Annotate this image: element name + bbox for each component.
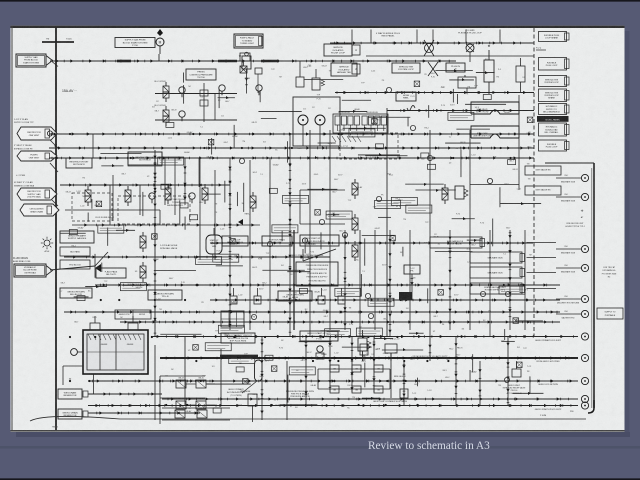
- right hook: [588, 400, 594, 413]
- hose loop 2: [471, 126, 519, 138]
- HPU enclosure: [293, 97, 340, 146]
- R22 link: [527, 257, 557, 259]
- wire wash bus C: [49, 156, 534, 159]
- callout flag restrictor b: [17, 151, 57, 161]
- valve ctrl V2: [163, 106, 169, 126]
- terminal circle bottom bus 2: [581, 354, 588, 361]
- left junction arrows: [95, 264, 101, 272]
- label box gekko supply box: [60, 231, 94, 243]
- bc rail: [160, 375, 205, 377]
- wire bottom vertical x480: [478, 361, 481, 405]
- reservoir tank T1: [83, 330, 148, 374]
- label box hose reel box: [396, 92, 416, 101]
- paper shadow bottom: [16, 432, 630, 437]
- valve col V0: [352, 179, 358, 199]
- valve col V2: [352, 241, 358, 261]
- wire bottom bus 2: [160, 356, 578, 359]
- drawing border left: [11, 26, 13, 431]
- wire grid vertical x430: [429, 130, 431, 336]
- accumulator capsule: [255, 360, 263, 381]
- valve on bus2: [360, 344, 368, 355]
- manifold strip: [333, 114, 388, 133]
- spring valve SV1: [358, 338, 367, 351]
- wire grid vertical x155: [153, 158, 156, 210]
- callout R2: [539, 58, 570, 71]
- wire grid vertical x230: [228, 158, 231, 330]
- small comp x255: [255, 68, 262, 74]
- caption: [368, 440, 490, 452]
- wire grid vertical x525: [524, 230, 526, 330]
- callout R1: [539, 32, 570, 42]
- wire grid vertical x270: [269, 158, 271, 330]
- gauge gauge G2: [256, 85, 262, 95]
- rm spring valve: [455, 186, 464, 199]
- sun symbol: [44, 240, 50, 246]
- R23 link: [527, 272, 557, 274]
- spring valve atop HPU: [312, 78, 320, 90]
- tj b comp: [317, 346, 323, 352]
- terminal circle bottom bus 5: [581, 402, 588, 409]
- rounded tank: [206, 235, 222, 254]
- valve left col V7: [140, 262, 146, 282]
- wire grid vertical x165: [164, 158, 166, 205]
- tank drop wire: [93, 374, 95, 394]
- mb valve 0: [330, 365, 339, 372]
- valve rm V1: [442, 184, 448, 204]
- x circle valve: [428, 62, 438, 76]
- filter F1: [516, 66, 525, 82]
- gauge mid gauge a: [149, 193, 155, 203]
- label box nde box: [262, 236, 292, 246]
- label box gas drain reservoir 1: [58, 389, 82, 399]
- wire grid vertical x310: [309, 130, 311, 336]
- center small valves: [230, 288, 237, 304]
- bold arrow segment on H1: [117, 60, 131, 63]
- tank bottom lines: [63, 365, 83, 367]
- mb valve 5: [374, 386, 383, 393]
- label box shroud tee box: [392, 63, 420, 73]
- gauge gauge G4: [179, 111, 185, 121]
- wire bottom vertical x185: [184, 337, 186, 405]
- label box tops box: [96, 268, 126, 278]
- dashed outline 2: [118, 196, 190, 224]
- dashed outline left: [72, 193, 112, 221]
- text po1099 label: [458, 30, 482, 35]
- tank stubs: [90, 323, 100, 330]
- wire heavy vertical x294: [293, 230, 295, 330]
- wire long vertical x155: [153, 150, 156, 336]
- label box return filter box: [148, 290, 182, 300]
- tj cluster right: [512, 369, 521, 377]
- gun circle RC4: [556, 267, 581, 269]
- label box supply gas note B1: [115, 38, 155, 48]
- wire long bus F: [95, 283, 560, 286]
- gun circle RC5: [556, 298, 581, 300]
- text pressure text bottom: [286, 391, 315, 398]
- wire bottom vertical x262: [260, 337, 263, 420]
- wire wash bus B: [49, 146, 534, 149]
- hose loop 1: [471, 102, 519, 114]
- bc valve 0: [176, 380, 186, 388]
- R24 link: [527, 288, 557, 290]
- valve ctrl V1: [163, 82, 169, 102]
- riser arrows: [238, 219, 243, 225]
- pressure text box: [296, 262, 338, 286]
- wire grid vertical x345: [343, 230, 346, 330]
- rail y110: [387, 110, 534, 112]
- flag1 circle: [47, 131, 52, 136]
- wire grid vertical x250: [249, 160, 251, 330]
- sq A2: [352, 64, 360, 74]
- label box plug in box: [446, 63, 465, 72]
- bc links: [186, 383, 196, 385]
- callout flag circulating gear: [20, 204, 59, 216]
- callout flag hydraulic block: [14, 264, 46, 277]
- wire grid vertical x185: [183, 158, 186, 205]
- wire vertical x113: [112, 175, 114, 221]
- drawing border top: [11, 26, 625, 28]
- label box startup hyd supply box: [300, 331, 338, 341]
- bc2 valve 1: [197, 410, 207, 418]
- wire grid vertical x450: [448, 230, 451, 330]
- flag slashes: [50, 140, 58, 148]
- wire grid vertical x175: [174, 158, 176, 215]
- left small blocks: [60, 247, 90, 256]
- label box gas drain reservoir 2: [58, 409, 82, 419]
- wire grid vertical x510: [508, 230, 511, 330]
- label box sample box: [60, 288, 92, 298]
- valve mid V1: [125, 186, 131, 206]
- callout flag restrictor d: [17, 188, 57, 200]
- wire grid vertical x330: [329, 130, 331, 330]
- wire mid bus G: [210, 298, 560, 301]
- mid link lines: [65, 209, 160, 211]
- pump circle P3: [315, 115, 325, 125]
- bc valve 1: [176, 401, 186, 409]
- tank left gauge: [71, 349, 78, 356]
- label box restrictor set box 2: [66, 158, 92, 168]
- mb valve 4: [352, 386, 361, 393]
- mb rail: [318, 368, 390, 370]
- R21 link: [527, 242, 557, 244]
- callout R4: [539, 89, 570, 102]
- wire bottom bus 1: [151, 335, 578, 338]
- wire bottom vertical x404: [402, 361, 405, 405]
- bus risers left: [92, 134, 94, 158]
- wire mid bus D: [210, 241, 533, 244]
- wire bottom vertical x221: [220, 349, 222, 405]
- wm circle: [466, 44, 474, 52]
- texture mini boxes: [98, 112, 525, 375]
- valve mid V3: [202, 184, 208, 204]
- bottom sweep line: [30, 416, 586, 421]
- reservoir sq 1: [83, 391, 88, 397]
- dashed outline 1: [128, 152, 162, 166]
- terminal circle bottom bus 3: [581, 377, 588, 384]
- wire grid vertical x200: [199, 158, 201, 260]
- valve on bus4: [400, 389, 408, 398]
- texture symbols: [69, 81, 532, 413]
- valve mid V0: [85, 186, 91, 206]
- callout R22: [470, 252, 525, 263]
- callout R24: [470, 283, 525, 294]
- bold bar under box: [220, 355, 258, 358]
- left drop wire: [55, 378, 57, 425]
- wire grid vertical x215: [214, 170, 216, 260]
- hatch under manifold: [332, 136, 336, 142]
- pump unit P1: [484, 60, 494, 82]
- reservoir sq 2: [83, 411, 88, 417]
- wire grid vertical x375: [374, 230, 376, 330]
- label box hub box: [404, 265, 420, 274]
- bold segment 2 on H1: [218, 60, 237, 63]
- wire bottom bus 5: [88, 404, 578, 407]
- wire bottom vertical x306: [304, 337, 307, 405]
- bc valve 3: [196, 401, 206, 409]
- callout R6: [539, 123, 570, 136]
- hub stem: [411, 274, 413, 300]
- gauge mid gauge b: [189, 193, 195, 203]
- gun circle RC3: [556, 248, 581, 250]
- inverted panel bar: [537, 116, 569, 122]
- label box woer box: [222, 236, 248, 246]
- tick cross on left vertical: [42, 41, 74, 43]
- wire mid bus I: [120, 320, 560, 323]
- wire mid bus H: [64, 310, 560, 313]
- caption band: [0, 446, 640, 449]
- zone dash divider: [533, 28, 535, 336]
- wire main supply bus H1: [50, 59, 456, 62]
- bc2 valve 0: [175, 410, 185, 418]
- wire bottom vertical x456: [454, 337, 457, 405]
- rail y92: [335, 92, 534, 94]
- wire main left vertical: [55, 28, 57, 431]
- cluster rails: [155, 93, 237, 95]
- diagonal wire: [303, 249, 336, 261]
- vertical x387: [386, 108, 388, 336]
- label box water mist: [278, 291, 312, 301]
- loop gauge: [487, 178, 492, 183]
- terminal circle bottom bus 4: [581, 395, 588, 402]
- label box restrictor set box: [128, 152, 162, 165]
- riser from H1: [158, 54, 160, 61]
- comp x296: [296, 77, 304, 87]
- gun circle RC1: [556, 177, 581, 179]
- top border drops: [351, 30, 353, 44]
- text 4way label: [376, 32, 400, 38]
- drop to bus: [390, 353, 392, 361]
- slide bottom edge: [0, 478, 640, 480]
- wire bottom vertical x155: [154, 345, 156, 420]
- reservoir link 1: [88, 393, 162, 395]
- label box service isolated 1: [324, 44, 352, 56]
- wire wash bus A: [49, 132, 534, 135]
- label box gas primary circuit: [221, 333, 255, 343]
- motor M1: [156, 38, 164, 46]
- valve left col V6: [140, 232, 146, 252]
- regulator box: [300, 235, 339, 246]
- callout R5: [539, 104, 570, 115]
- label box pump fault board light B2: [234, 34, 263, 48]
- comp right 458: [458, 77, 476, 88]
- loop riser: [518, 95, 520, 190]
- reservoir link 2: [88, 412, 200, 414]
- mb valve 2: [374, 365, 383, 372]
- upn valve: [248, 394, 257, 406]
- callout R23: [470, 267, 525, 278]
- wire bottom vertical x430: [428, 337, 431, 361]
- frame step horizontal: [545, 162, 594, 164]
- wire bottom vertical x508: [506, 337, 509, 405]
- wire bottom vertical x391: [390, 353, 392, 398]
- hx lines: [300, 189, 345, 191]
- gun circle RC2: [556, 196, 581, 198]
- wire bottom vertical x374: [372, 337, 375, 392]
- valve mid V2: [165, 184, 171, 204]
- mb valve 1: [352, 365, 361, 372]
- gauge gauge G3: [179, 87, 185, 97]
- texture wire segments: [60, 69, 543, 405]
- mid cluster A lines: [60, 184, 230, 186]
- terminal circle bottom bus 1: [581, 333, 588, 340]
- cross valve W1: [424, 40, 434, 56]
- sq A1: [352, 45, 360, 55]
- dark indicator box: [399, 292, 412, 300]
- wire bottom vertical x287: [286, 361, 288, 420]
- wire grid vertical x290: [288, 158, 291, 336]
- return filter pair: [115, 310, 151, 319]
- wire bottom bus 3: [88, 379, 578, 382]
- callout flag supply gas from block start: [16, 54, 46, 67]
- text gauge panel text: [290, 254, 324, 259]
- valve mid V5: [250, 192, 256, 212]
- wire bottom vertical x352: [350, 337, 353, 392]
- bc2 rail: [162, 407, 230, 409]
- label box press control B3: [186, 69, 216, 80]
- dashed outline 3: [340, 133, 398, 159]
- paper shadow right: [625, 31, 630, 432]
- valve bank bottom: [221, 311, 244, 327]
- callout flag restrictor a: [17, 127, 57, 140]
- callout R21: [430, 237, 485, 248]
- wire grid vertical x490: [489, 230, 491, 336]
- pump circle P2: [298, 115, 308, 125]
- mb valve 3: [330, 386, 339, 393]
- callout R3: [539, 76, 570, 87]
- wire grid vertical x470: [469, 130, 471, 330]
- top right rail 1: [330, 42, 534, 44]
- drawing border bottom: [11, 430, 625, 432]
- bc valve 2: [196, 380, 206, 388]
- slide top edge: [0, 0, 640, 2]
- supply to box: [597, 308, 623, 319]
- label box service isolated 2: [331, 63, 357, 76]
- wire grid vertical x390: [388, 230, 391, 336]
- valve col V1: [352, 214, 358, 234]
- wire bottom bus 4: [162, 397, 578, 400]
- wire grid vertical x410: [409, 230, 411, 330]
- callout R7: [539, 140, 570, 151]
- top right rail 2: [366, 55, 534, 57]
- gmt boxes: [525, 166, 561, 175]
- frame right border: [593, 163, 595, 408]
- gun circle RC6: [556, 313, 581, 315]
- wire bottom vertical x330: [328, 337, 331, 392]
- wire grid vertical x360: [359, 230, 361, 336]
- gauge gauge G1: [219, 85, 225, 95]
- bold segment 3 on H1: [261, 60, 279, 63]
- accumulator A1: [242, 56, 251, 69]
- wire mid bus E: [64, 255, 330, 258]
- valve stack X1: [240, 66, 247, 73]
- scatter labels: [60, 65, 532, 413]
